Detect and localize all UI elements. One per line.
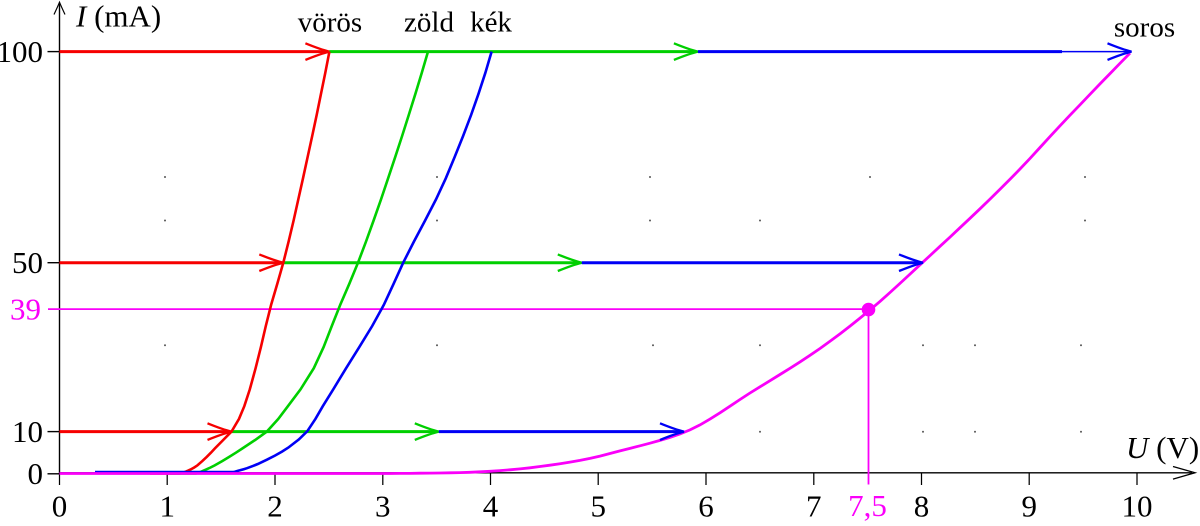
blue arrowhead I=50 — [899, 254, 923, 271]
svg-text:0: 0 — [28, 456, 44, 491]
y axis — [59, 3, 61, 474]
svg-text:8: 8 — [914, 489, 930, 522]
svg-text:zöld: zöld — [404, 7, 454, 39]
7.5 V vertical magenta line — [868, 309, 870, 484]
svg-text:kék: kék — [470, 7, 512, 39]
svg-text:39: 39 — [10, 291, 41, 326]
svg-text:50: 50 — [12, 245, 43, 280]
x axis — [60, 472, 1193, 474]
operating point dot (7.5V, 39mA) — [862, 303, 876, 317]
svg-text:7,5: 7,5 — [848, 488, 887, 521]
blue LED curve (kek) — [95, 52, 492, 473]
green LED curve (zold) — [170, 52, 428, 474]
y tick labels — [0, 34, 43, 491]
svg-text:3: 3 — [375, 489, 391, 522]
svg-text:7: 7 — [806, 489, 822, 522]
svg-text:0: 0 — [52, 489, 68, 522]
svg-text:U (V): U (V) — [1126, 430, 1199, 465]
svg-text:2: 2 — [267, 489, 283, 522]
39 mA horizontal magenta line — [48, 308, 869, 310]
red arrow I=50 — [60, 261, 282, 264]
soros (series) magenta curve — [60, 53, 1131, 473]
x axis arrowhead — [1173, 467, 1195, 480]
svg-text:9: 9 — [1021, 489, 1037, 522]
grid dots — [164, 176, 1086, 433]
svg-text:I (mA): I (mA) — [75, 0, 161, 34]
svg-text:soros: soros — [1114, 12, 1175, 44]
blue arrowhead I=100 — [1108, 43, 1132, 60]
svg-text:10: 10 — [12, 414, 43, 449]
y axis arrowhead — [54, 2, 65, 14]
x ticks — [60, 473, 1138, 485]
y ticks — [48, 52, 60, 474]
red arrow I=100 — [60, 50, 328, 53]
green arrow I=100 — [329, 50, 696, 53]
red arrow I=10 — [60, 430, 230, 433]
svg-text:vörös: vörös — [298, 7, 362, 39]
svg-text:5: 5 — [590, 489, 606, 522]
green arrow I=10 — [232, 430, 437, 433]
svg-text:100: 100 — [0, 34, 43, 69]
svg-text:6: 6 — [698, 489, 714, 522]
blue arrowhead I=10 — [660, 423, 684, 440]
x tick labels — [52, 489, 1153, 524]
red LED curve (voros) — [150, 52, 329, 474]
svg-text:1: 1 — [159, 489, 175, 522]
blue arrow I=100 — [698, 50, 1062, 53]
svg-text:10: 10 — [1122, 489, 1153, 522]
blue arrow I=50 — [582, 261, 920, 264]
svg-text:4: 4 — [483, 489, 499, 522]
green arrow I=50 — [283, 261, 580, 264]
blue arrow I=10 — [439, 430, 681, 433]
